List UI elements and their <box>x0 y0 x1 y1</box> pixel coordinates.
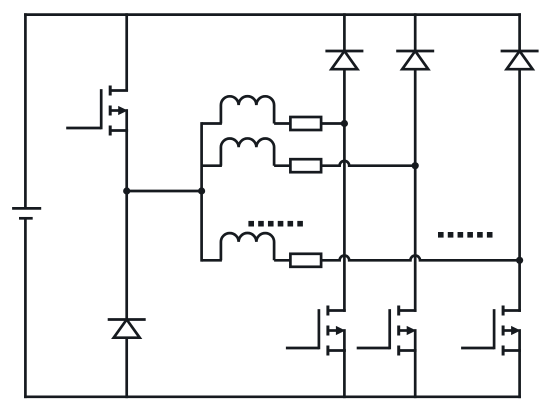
transistor Q2 <box>328 309 346 312</box>
diode D4 <box>501 50 539 53</box>
wire left bus lower (battery - to bottom rail) <box>24 218 27 398</box>
resistor R1 <box>290 117 321 130</box>
transistor Q1 <box>110 89 128 92</box>
ellipsis dots (more phases, right) <box>438 232 444 238</box>
wire bus to inductor Ln <box>202 259 222 262</box>
diode D1 <box>108 318 146 321</box>
inductor Ln <box>221 233 274 260</box>
wire D1 anode to bottom rail <box>125 338 128 398</box>
wire D4 anode to Q4 drain <box>518 69 521 312</box>
wire node A to inductor bus <box>127 190 202 193</box>
wire Rn to node E (hops over columns 1 and 2) <box>321 255 519 260</box>
wire Q1 source to node A <box>125 129 128 191</box>
wire top rail to diode D3 <box>414 13 417 51</box>
wire D3 anode to Q3 drain <box>414 69 417 312</box>
wire top rail to diode D2 <box>343 13 346 51</box>
node E junction dot <box>516 257 523 264</box>
wire L2 to resistor R2 <box>274 164 290 167</box>
wire Q1 drain from top rail <box>125 13 128 90</box>
diode D3 <box>396 50 434 53</box>
ellipsis dots (more phases, left) <box>248 221 254 227</box>
resistor R2 <box>290 159 321 172</box>
wire bus to inductor L2 <box>202 164 222 167</box>
inductor L2 <box>221 138 274 165</box>
wire Q3 source to bottom rail <box>414 349 417 398</box>
diode D2 <box>325 50 363 53</box>
transistor Q3 <box>399 309 417 312</box>
inductor L1 <box>221 96 274 123</box>
wire top rail to diode D4 <box>518 13 521 51</box>
wire Q2 source to bottom rail <box>343 349 346 398</box>
wire R1 to node C <box>321 122 344 125</box>
wire inductor input bus <box>200 122 203 262</box>
node C junction dot <box>341 120 348 127</box>
node D junction dot <box>412 162 419 169</box>
wire Q4 source to bottom rail <box>518 349 521 398</box>
resistor Rn <box>290 254 321 267</box>
wire node A to diode D1 <box>125 191 128 320</box>
transistor Q4 <box>503 309 521 312</box>
wire bus to inductor L1 <box>202 122 222 125</box>
wire L1 to resistor R1 <box>274 122 290 125</box>
wire Ln to resistor Rn <box>274 259 290 262</box>
node B junction dot <box>198 187 205 194</box>
wire R2 to node D (hop over column 1) <box>321 161 415 166</box>
wire D2 anode to Q2 drain <box>343 69 346 312</box>
wire bottom rail <box>24 395 521 398</box>
wire left bus upper (top rail to battery +) <box>24 13 27 208</box>
node A junction dot <box>123 187 130 194</box>
battery V1 <box>12 207 41 210</box>
wire top rail <box>24 13 521 16</box>
